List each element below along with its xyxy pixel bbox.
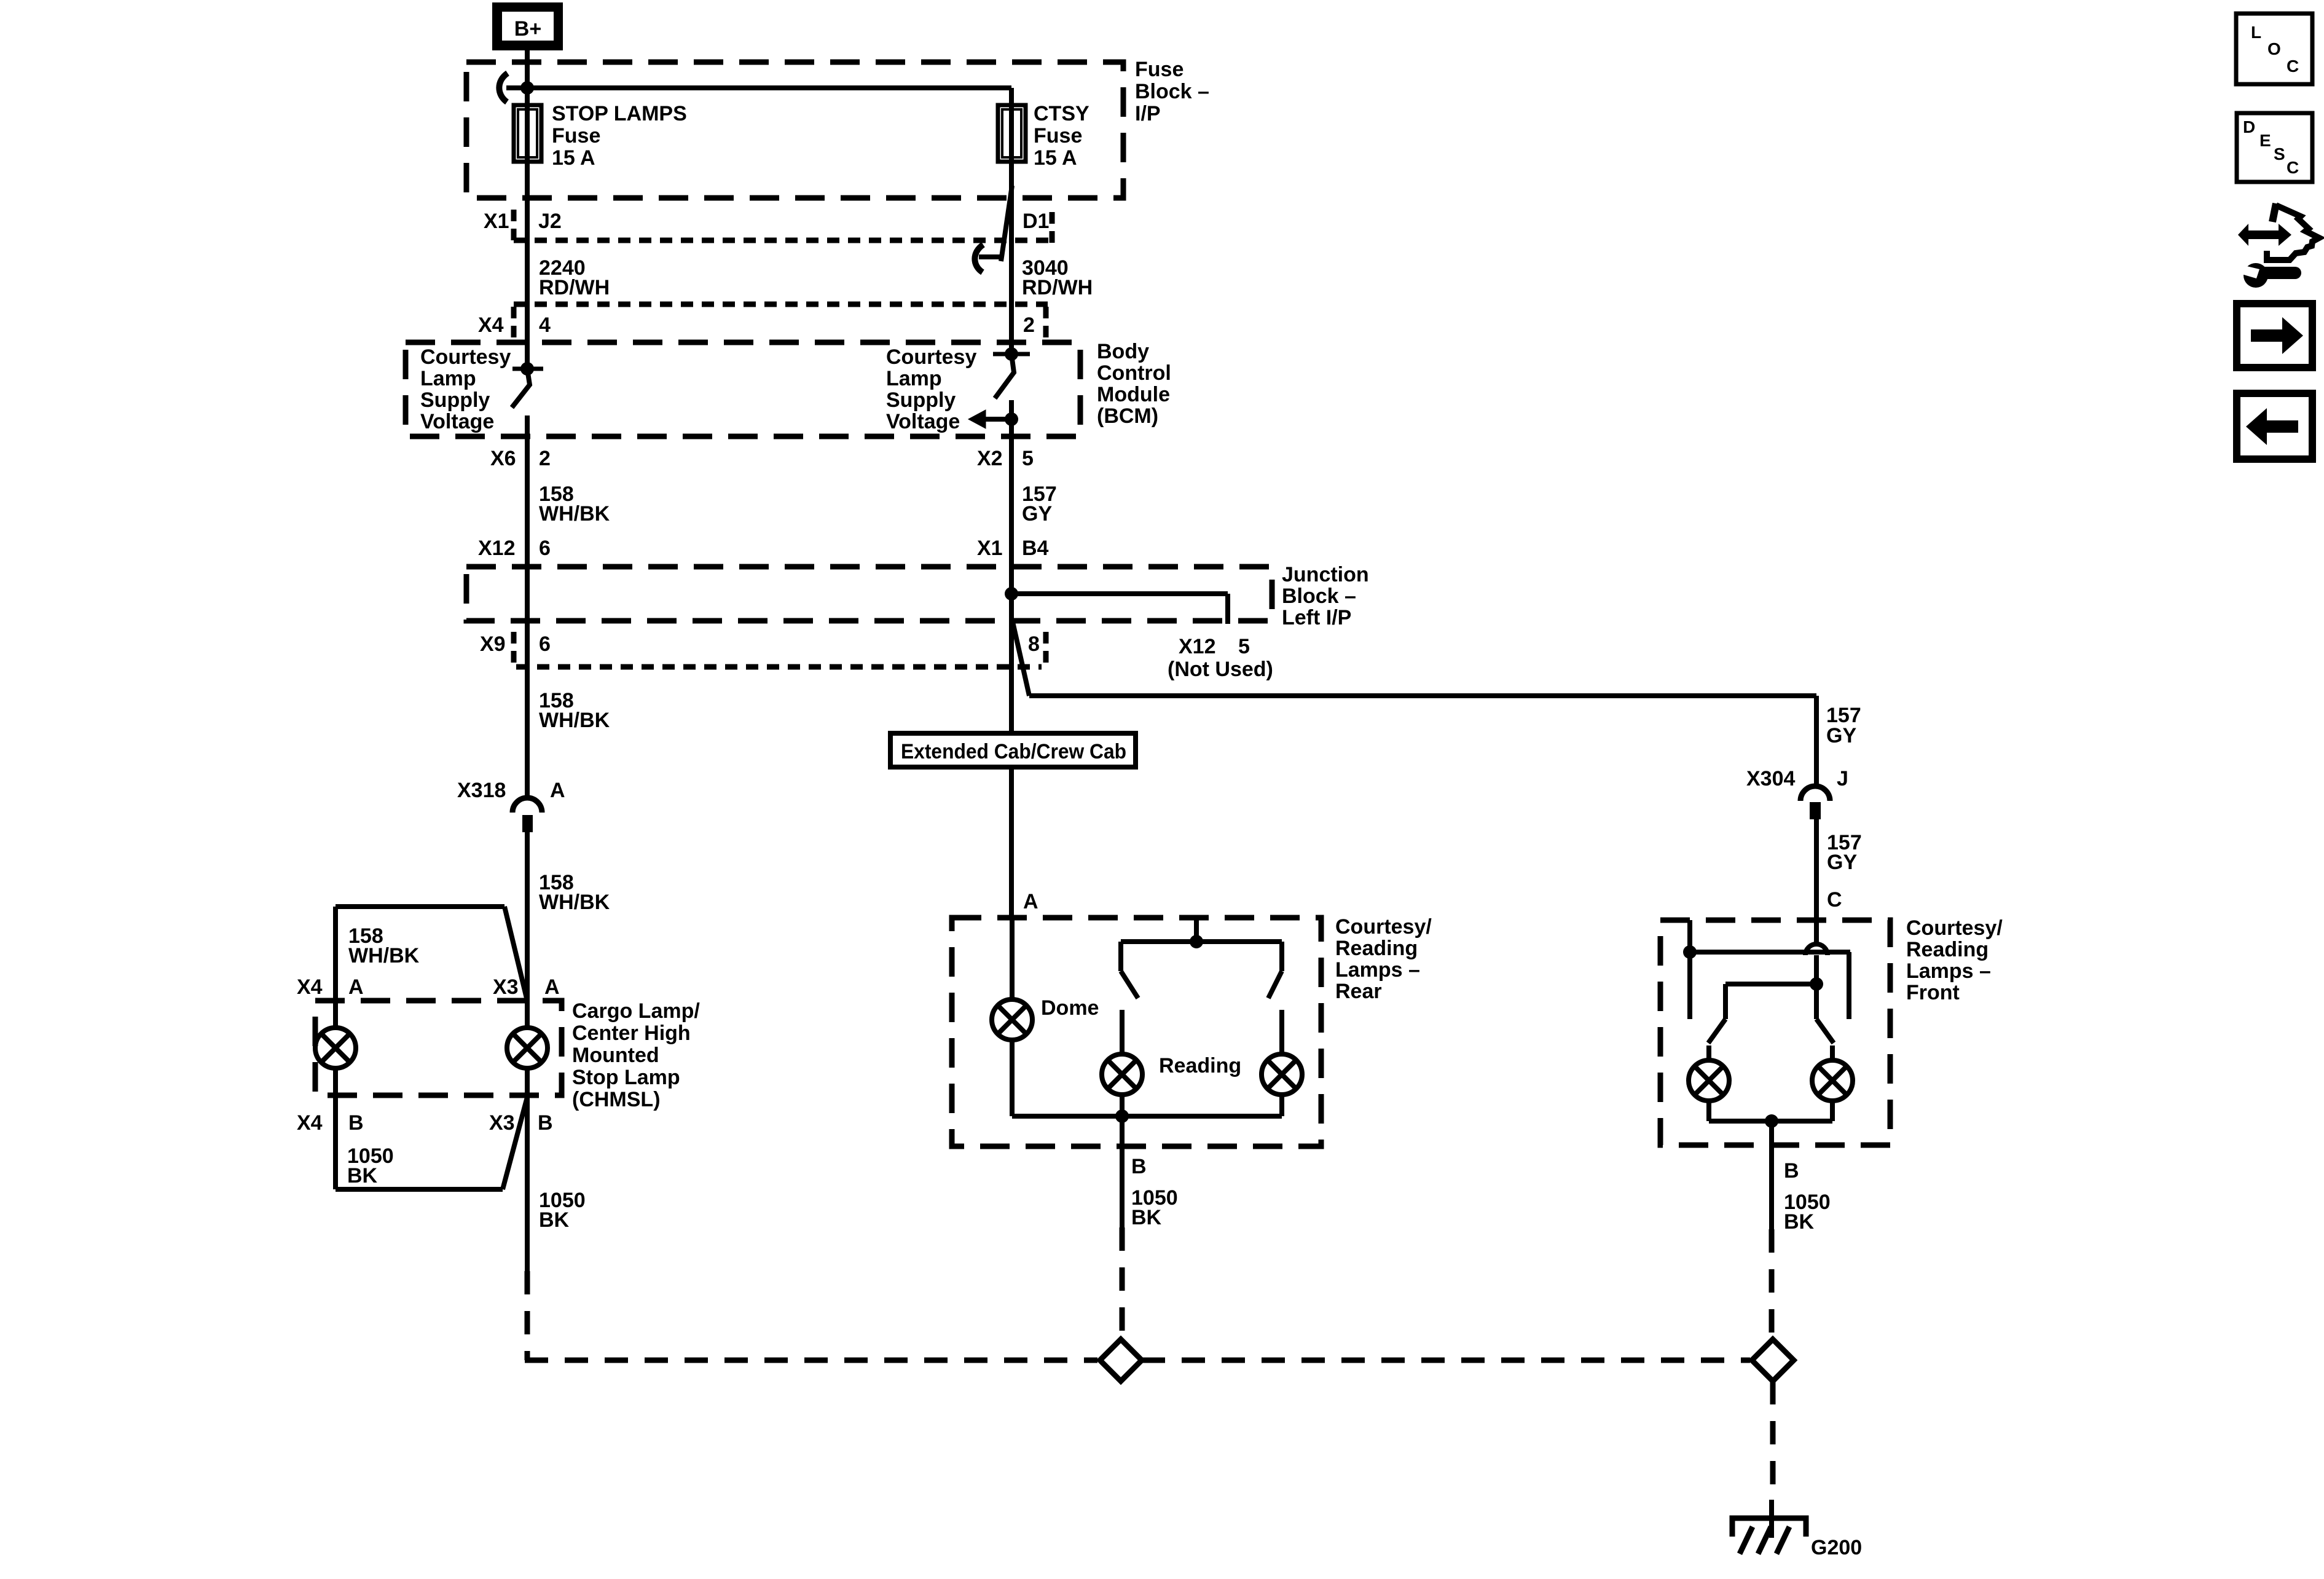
svg-text:X304: X304: [1746, 767, 1795, 790]
svg-text:4: 4: [539, 313, 551, 337]
svg-text:Module: Module: [1097, 383, 1170, 406]
svg-text:WH/BK: WH/BK: [539, 709, 610, 732]
svg-text:Block –: Block –: [1282, 585, 1356, 608]
svg-text:Junction: Junction: [1282, 563, 1369, 586]
svg-text:Fuse: Fuse: [552, 124, 600, 148]
svg-text:X1: X1: [977, 537, 1003, 560]
svg-text:Left I/P: Left I/P: [1282, 606, 1351, 629]
svg-text:B+: B+: [514, 17, 541, 41]
svg-text:GY: GY: [1022, 502, 1052, 526]
svg-text:BK: BK: [1784, 1210, 1815, 1234]
svg-text:I/P: I/P: [1135, 102, 1161, 125]
svg-text:G200: G200: [1811, 1536, 1862, 1559]
svg-text:6: 6: [539, 632, 551, 656]
svg-text:Reading: Reading: [1335, 937, 1418, 960]
svg-text:WH/BK: WH/BK: [539, 891, 610, 914]
svg-text:6: 6: [539, 537, 551, 560]
svg-text:C: C: [2287, 158, 2299, 177]
svg-text:Fuse: Fuse: [1034, 124, 1082, 148]
svg-text:Courtesy: Courtesy: [420, 345, 511, 369]
svg-text:Courtesy/: Courtesy/: [1906, 916, 2003, 940]
svg-text:(Not Used): (Not Used): [1168, 658, 1273, 681]
svg-text:BK: BK: [347, 1164, 378, 1187]
svg-text:C: C: [2287, 57, 2299, 76]
svg-text:WH/BK: WH/BK: [539, 502, 610, 526]
svg-text:5: 5: [1238, 635, 1250, 658]
svg-text:GY: GY: [1826, 724, 1856, 747]
svg-text:Body: Body: [1097, 340, 1149, 363]
svg-text:A: A: [348, 975, 364, 999]
svg-text:GY: GY: [1827, 851, 1857, 874]
svg-text:X1: X1: [484, 210, 509, 233]
svg-text:Lamps –: Lamps –: [1906, 959, 1991, 983]
svg-text:Cargo Lamp/: Cargo Lamp/: [572, 999, 700, 1023]
svg-text:Supply: Supply: [420, 388, 490, 412]
svg-text:15 A: 15 A: [552, 146, 595, 170]
svg-text:D: D: [2243, 117, 2255, 136]
svg-text:8: 8: [1028, 632, 1040, 656]
svg-text:X6: X6: [490, 447, 516, 470]
svg-text:B4: B4: [1022, 537, 1049, 560]
svg-text:X12: X12: [1179, 635, 1216, 658]
svg-text:BK: BK: [539, 1208, 570, 1232]
svg-text:5: 5: [1022, 447, 1034, 470]
svg-text:D1: D1: [1023, 210, 1049, 233]
svg-text:Center High: Center High: [572, 1022, 691, 1045]
svg-text:STOP LAMPS: STOP LAMPS: [552, 102, 687, 125]
svg-text:2: 2: [539, 447, 551, 470]
svg-text:(BCM): (BCM): [1097, 404, 1158, 428]
svg-text:15 A: 15 A: [1034, 146, 1077, 170]
svg-text:B: B: [348, 1111, 364, 1135]
svg-text:Voltage: Voltage: [420, 410, 494, 433]
svg-text:Rear: Rear: [1335, 980, 1382, 1003]
svg-text:A: A: [550, 779, 565, 802]
svg-text:Courtesy: Courtesy: [886, 345, 976, 369]
svg-text:BK: BK: [1131, 1206, 1162, 1229]
svg-text:A: A: [544, 975, 560, 999]
svg-text:Mounted: Mounted: [572, 1044, 659, 1067]
svg-text:X9: X9: [480, 632, 506, 656]
svg-text:L: L: [2251, 23, 2261, 42]
svg-text:O: O: [2267, 39, 2281, 58]
svg-text:Dome: Dome: [1041, 996, 1099, 1020]
svg-text:RD/WH: RD/WH: [1022, 276, 1093, 299]
svg-text:Voltage: Voltage: [886, 410, 960, 433]
svg-text:X12: X12: [478, 537, 516, 560]
svg-text:X3: X3: [489, 1111, 515, 1135]
svg-text:X3: X3: [493, 975, 519, 999]
svg-text:J: J: [1837, 767, 1848, 790]
svg-text:X2: X2: [977, 447, 1003, 470]
svg-text:Lamps –: Lamps –: [1335, 958, 1420, 982]
svg-text:Control: Control: [1097, 361, 1171, 385]
svg-text:X4: X4: [478, 313, 504, 337]
svg-text:Front: Front: [1906, 981, 1960, 1004]
svg-text:C: C: [1827, 888, 1842, 912]
svg-text:2: 2: [1023, 313, 1035, 337]
svg-text:WH/BK: WH/BK: [348, 944, 420, 967]
svg-text:X4: X4: [297, 1111, 323, 1135]
svg-text:Stop Lamp: Stop Lamp: [572, 1066, 680, 1089]
svg-text:(CHMSL): (CHMSL): [572, 1088, 661, 1111]
svg-text:A: A: [1023, 890, 1038, 913]
svg-text:X318: X318: [457, 779, 506, 802]
svg-text:B: B: [1784, 1159, 1799, 1183]
svg-text:X4: X4: [297, 975, 323, 999]
svg-text:Lamp: Lamp: [420, 367, 476, 390]
svg-text:Courtesy/: Courtesy/: [1335, 915, 1432, 939]
svg-text:Extended Cab/Crew Cab: Extended Cab/Crew Cab: [901, 740, 1126, 763]
svg-text:Supply: Supply: [886, 388, 956, 412]
svg-text:RD/WH: RD/WH: [539, 276, 610, 299]
svg-text:S: S: [2274, 144, 2285, 163]
svg-text:B: B: [538, 1111, 553, 1135]
svg-text:Fuse: Fuse: [1135, 58, 1184, 81]
svg-text:E: E: [2259, 131, 2271, 150]
svg-text:Reading: Reading: [1906, 938, 1988, 961]
svg-text:B: B: [1131, 1155, 1147, 1178]
svg-text:J2: J2: [538, 210, 562, 233]
svg-text:Block –: Block –: [1135, 80, 1209, 103]
svg-text:Lamp: Lamp: [886, 367, 942, 390]
svg-text:Reading: Reading: [1159, 1054, 1241, 1077]
svg-text:CTSY: CTSY: [1034, 102, 1089, 125]
